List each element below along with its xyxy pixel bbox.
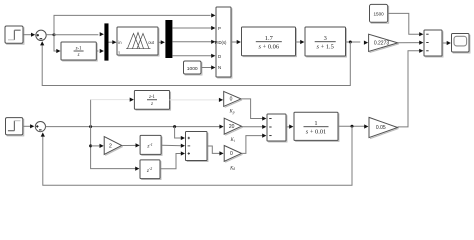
svg-text:z: z [150,102,153,107]
svg-text:0: 0 [230,97,233,103]
gain block Kp value 0 [224,91,242,107]
gain block 0.05 [369,117,399,138]
wire Fuzzy to Demux [158,40,165,44]
wire gain2 to z^-1 [122,143,140,147]
transfer function block 3/(s+1.5) [305,27,346,57]
wire TF3 output with junction node [338,124,368,128]
gain block 0.2273 [369,34,399,52]
svg-text:s + 1.5: s + 1.5 [317,44,334,51]
svg-text:0.05: 0.05 [376,125,386,131]
discrete derivative block (z-1)/z lower [134,91,170,111]
unit delay block z^-2 [140,160,161,180]
wire Mux3 to TF3 [286,125,293,129]
unit delay block z^-1 [140,135,162,155]
svg-text:N: N [218,65,221,70]
svg-text:1.7: 1.7 [265,35,274,42]
wire Kp to Mux3 in1 [241,99,266,121]
wire Mux1 to Fuzzy Logic Controller [109,40,117,44]
wire branch down the left chain [91,127,140,171]
svg-text:0.2273: 0.2273 [374,41,390,47]
svg-text:s + 0.01: s + 0.01 [306,129,326,136]
svg-text:3: 3 [324,35,327,42]
wire to gain 2 [91,144,104,148]
wire derivative to Kp gain (faded) [170,98,224,102]
svg-text:s + 0.06: s + 0.06 [259,44,279,51]
wire z^-2 to SumA plus input [160,151,185,168]
wire Demux out3 to PID D port [172,54,215,58]
gain block Kd value 0 [224,146,242,163]
wire error branch down to discrete derivative [54,35,61,53]
node junction on e[k] at x=90.6 [89,125,92,128]
mux Mux1 (black bar) [104,23,108,60]
wire Demux out1 to PID P port [172,26,215,30]
svg-text:2: 2 [109,143,112,149]
svg-text:z: z [77,53,80,58]
constant block 1500 [370,4,389,23]
label Kd [229,166,235,171]
wire derivative out to Mux1 second input [96,49,104,53]
wire Ki to Mux3 in2 [242,125,267,129]
svg-text:1500: 1500 [373,12,384,17]
wire 0.05 up to Mux2 in3 [398,49,424,127]
sum junction Sum2 [35,122,45,132]
wire Step2 to Sum2 [23,124,35,128]
wire PID to plant TF1 [231,40,241,44]
svg-text:out: out [148,40,155,45]
label Ki [229,138,234,143]
wire TF1 to TF2 [296,40,305,44]
feedback wire top loop [40,41,350,85]
wire error e[k] main line to Ki gain [46,125,224,129]
mux/bus block Mux2 before scope [424,30,443,57]
transfer function block 1/(s+0.01) [294,112,339,141]
label Kp [229,110,235,115]
wire TF2 output with junction node [346,41,369,45]
node junction on e[k] at x=174.6 [173,125,176,128]
node junction at gain-2 takeoff [89,144,92,147]
discrete derivative block (z-1)/z upper [61,42,97,61]
wire 1500 to Mux2 in1 [388,13,424,36]
svg-text:0: 0 [230,151,233,157]
wire Demux out2 to PID I port [172,40,215,44]
wire error to Mux1 first input [54,32,104,36]
fuzzy logic controller block U_fuzzy [117,27,159,56]
constant block N value 1000 [184,61,202,75]
wire Mux2 to Scope [442,41,451,45]
gain block Ki value 20 [224,118,242,135]
wire e[k] down to SumA first input [175,127,185,140]
demux Demux1 (black bar) [165,20,172,58]
scope block Scope [452,34,470,53]
wire SumA to Kd gain [207,146,224,155]
feedback wire bottom loop [41,126,352,185]
gain block value 2 [104,137,123,156]
svg-text:1: 1 [314,120,317,127]
svg-text:P: P [218,26,221,31]
wire 1000 to PID N port [201,65,215,69]
wire branch up to discrete derivative lower [91,98,134,127]
svg-text:PID(s): PID(s) [215,40,227,45]
wire error branch up to PID u input [54,13,215,34]
svg-text:1000: 1000 [187,66,198,72]
sum junction Sum1 [36,30,46,40]
svg-text:20: 20 [229,124,235,130]
svg-text:Kp: Kp [229,110,235,115]
svg-text:Kd: Kd [229,166,235,171]
svg-text:D: D [218,54,221,59]
wire 0.2273 to Mux2 in2 [398,41,424,45]
step source block Step2 [6,118,24,136]
svg-text:§: § [118,51,120,55]
step source block Step1 [5,26,24,44]
wire Sum1 output with branch node [46,33,55,36]
sum block SumA (e[k]-2e[k-1]+e[k-2]) [186,132,208,162]
mux/bus block Mux3 [267,114,287,142]
svg-text:Ki: Ki [229,138,234,143]
wire Step1 to Sum1 [23,33,35,37]
wire z^-1 to SumA minus input [161,144,185,148]
transfer function block 1.7/(s+0.06) [242,27,297,57]
PID controller block PID(s) [215,7,232,78]
wire Kd to Mux3 in3 [242,134,267,154]
